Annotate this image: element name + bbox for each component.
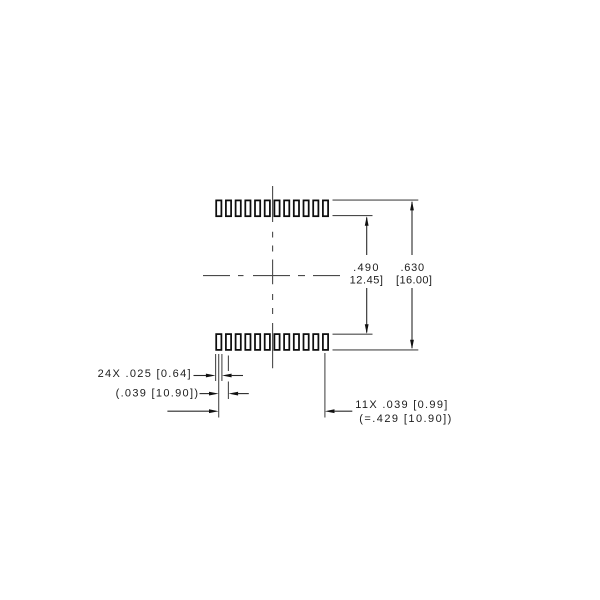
label (=.429 [10.90]) xyxy=(359,413,451,425)
dimension .490 line xyxy=(365,216,369,334)
svg-text:12.45]: 12.45] xyxy=(350,275,383,287)
extension line pad2 center xyxy=(227,356,229,400)
svg-text:.490: .490 xyxy=(353,262,378,274)
label 11X .039 [0.99] xyxy=(355,399,447,411)
svg-text:24X .025 [0.64]: 24X .025 [0.64] xyxy=(98,368,191,380)
extension line bottom outer xyxy=(333,349,419,351)
label 24X .025 [0.64] xyxy=(98,368,191,380)
pad row top (12 pads) xyxy=(216,200,328,216)
dimension pad width leader left xyxy=(194,374,216,378)
extension line bottom inner xyxy=(333,333,373,335)
svg-text:(=.429 [10.90]): (=.429 [10.90]) xyxy=(359,413,451,425)
dimension pad width leader right xyxy=(222,374,243,378)
centerline vertical xyxy=(272,186,274,368)
dimension overall leader left xyxy=(167,409,218,413)
pad row bottom (12 pads) xyxy=(216,334,328,350)
dimension pitch leader left xyxy=(200,392,219,396)
extension line pad1 center xyxy=(218,354,220,418)
centerline horizontal xyxy=(203,275,340,277)
dimension pitch leader right xyxy=(229,392,249,396)
dimension overall leader right xyxy=(325,409,352,413)
dimension .630 line xyxy=(410,201,414,349)
svg-text:.630: .630 xyxy=(400,262,424,274)
extension line top inner xyxy=(333,215,373,217)
extension line pad1 left edge xyxy=(215,354,217,381)
label 12.45] xyxy=(350,275,383,287)
label [16.00] xyxy=(396,275,432,287)
extension line pad1 right edge xyxy=(221,354,223,381)
label (.039 [10.90]) xyxy=(116,388,198,400)
svg-text:11X .039 [0.99]: 11X .039 [0.99] xyxy=(355,399,447,411)
label .490 xyxy=(353,262,378,274)
label .630 xyxy=(400,262,424,274)
extension line pad12 center xyxy=(324,353,326,418)
svg-text:[16.00]: [16.00] xyxy=(396,275,432,287)
extension line top outer xyxy=(333,199,419,201)
svg-text:(.039 [10.90]): (.039 [10.90]) xyxy=(116,388,198,400)
